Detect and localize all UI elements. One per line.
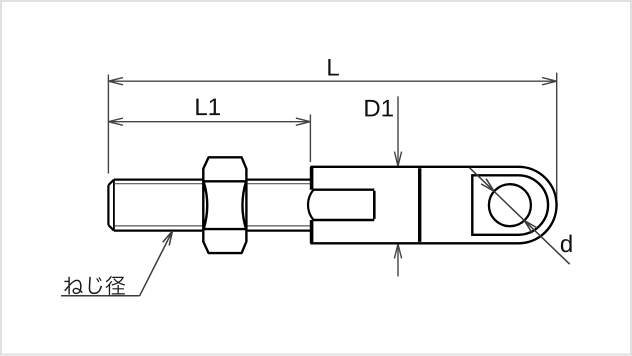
arrow L1 right — [296, 118, 311, 125]
eye hole circle — [489, 184, 531, 226]
label L — [328, 59, 339, 76]
nut face division upper — [203, 180, 246, 182]
nut chamfer arc right — [242, 181, 246, 229]
rod chamfer bottom-left — [108, 225, 114, 231]
arrow L left — [108, 78, 123, 85]
threaded rod with chamfered end — [108, 180, 311, 231]
arrow d upper — [481, 179, 494, 192]
label d — [561, 235, 572, 253]
eye inner wall — [472, 175, 548, 235]
dimension line D1 upper segment — [397, 96, 399, 166]
extension line right (for L) — [556, 73, 558, 199]
nut face division lower — [203, 228, 246, 230]
arrow d lower — [524, 221, 537, 234]
rod left end face — [107, 185, 109, 225]
rod major diameter bottom line — [114, 230, 312, 232]
slot upper line — [314, 188, 375, 190]
arrow D1 top — [394, 152, 401, 167]
extension line left (for L and L1) — [107, 75, 109, 174]
label L1 — [196, 99, 220, 116]
leader arrowhead — [163, 231, 173, 246]
rod chamfer edge line — [113, 181, 115, 230]
dimension line D1 lower segment — [397, 244, 399, 277]
nut outline — [203, 157, 246, 253]
dimension line L1 — [108, 121, 310, 123]
thread root line top — [115, 183, 312, 185]
slot right edge — [373, 191, 376, 219]
arrow L1 left — [108, 118, 123, 125]
slot bottom arc — [308, 190, 314, 220]
label ねじ径 (drawn as glyph outline paths) — [64, 276, 125, 295]
rod chamfer top-left — [108, 180, 114, 186]
label D1 — [365, 100, 393, 117]
eye neck transition line — [418, 168, 421, 242]
dimension line L — [108, 80, 556, 82]
dimension line d (diagonal) — [470, 168, 570, 265]
thread root line bottom — [115, 225, 312, 227]
leader underline — [61, 295, 140, 297]
slot lower line — [314, 219, 375, 221]
eye body white fill — [311, 167, 556, 244]
body left face line — [310, 167, 314, 244]
body outline top, right arc, bottom — [310, 167, 556, 244]
arrow D1 bottom — [394, 244, 401, 259]
hex nut — [203, 157, 246, 253]
extension line for L1 right — [309, 115, 311, 163]
nut chamfer arc left — [204, 181, 208, 229]
rod major diameter top line — [114, 179, 312, 181]
leader diagonal — [140, 231, 173, 296]
arrow L right — [542, 78, 557, 85]
